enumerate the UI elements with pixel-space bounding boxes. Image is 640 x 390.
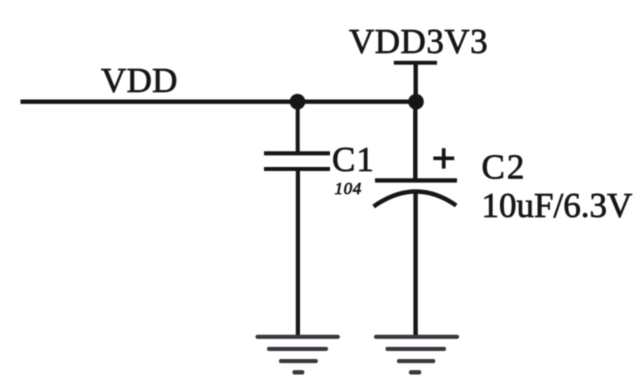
svg-text:C1: C1 <box>332 140 375 179</box>
capacitor C2 polarity plus sign <box>433 148 454 168</box>
capacitor C2 positive straight plate <box>375 178 457 182</box>
value 104 <box>335 179 362 198</box>
svg-text:VDD3V3: VDD3V3 <box>349 22 488 61</box>
power symbol VDD3V3 bar <box>394 61 437 65</box>
wire: node B down to C2 positive plate <box>413 102 417 179</box>
ground (C2) <box>376 337 457 373</box>
label C1 <box>332 140 375 179</box>
svg-text:104: 104 <box>335 179 362 198</box>
capacitor C1 plates <box>264 153 330 169</box>
label C2 <box>482 148 527 187</box>
ground (C1) <box>258 337 338 373</box>
svg-text:VDD: VDD <box>101 61 178 100</box>
node A: junction at C1 <box>290 94 306 110</box>
capacitor C2 curved negative plate <box>374 191 457 206</box>
value 10uF/6.3V <box>482 186 633 225</box>
wire: VDD3V3 bar down to node B <box>414 65 418 102</box>
wire: C2 bottom lead <box>413 193 417 337</box>
wire: C1 bottom lead <box>296 171 300 337</box>
net label VDD <box>101 61 178 100</box>
wire: C1 top lead <box>296 102 300 152</box>
svg-text:10uF/6.3V: 10uF/6.3V <box>482 186 633 225</box>
net label VDD3V3 <box>349 22 488 61</box>
node B: junction at C2 <box>408 94 424 110</box>
svg-text:C2: C2 <box>482 148 527 187</box>
wire: VDD horizontal rail <box>21 100 417 104</box>
